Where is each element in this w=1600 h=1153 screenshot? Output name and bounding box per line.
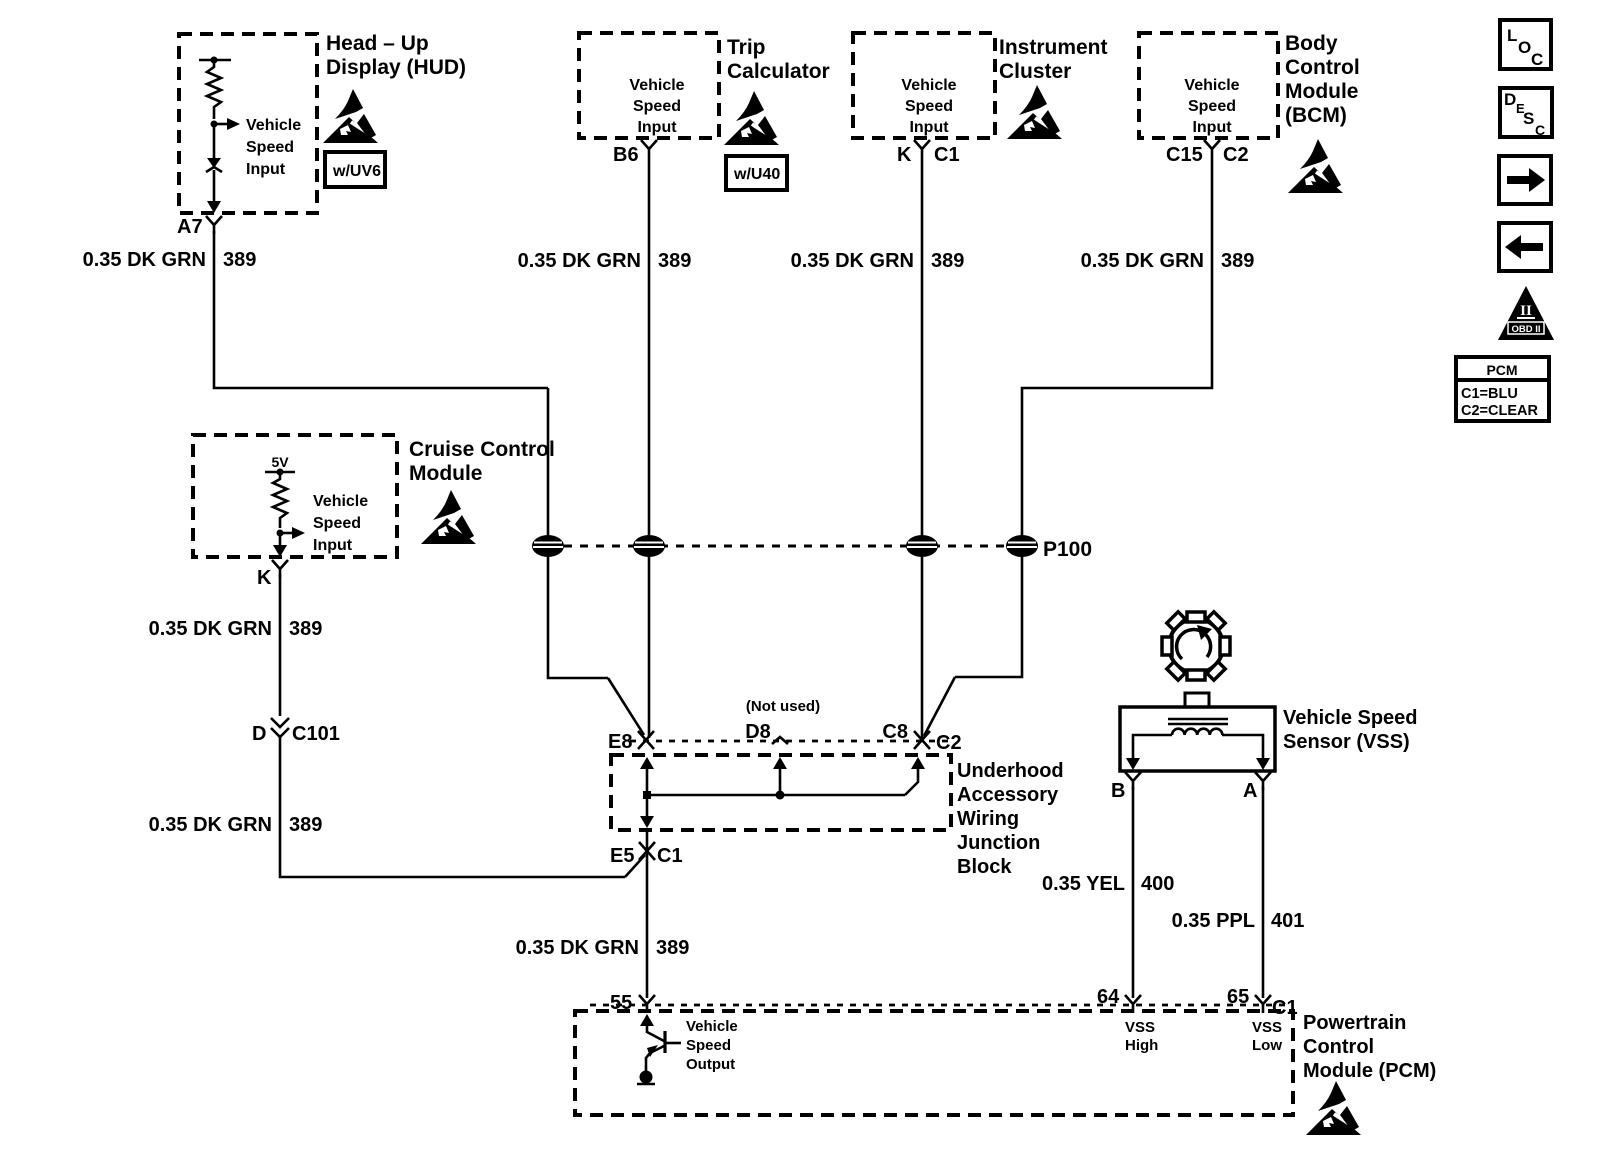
PCM connector edge line [590, 1004, 1290, 1007]
svg-text:C1: C1 [934, 144, 960, 166]
ESD icon for HUD [323, 89, 379, 143]
ESD icon for BCM [1288, 139, 1344, 193]
svg-text:C101: C101 [292, 723, 340, 745]
svg-text:Trip: Trip [727, 36, 766, 59]
svg-text:0.35 YEL: 0.35 YEL [1042, 873, 1125, 895]
svg-text:D: D [252, 723, 266, 745]
svg-text:Cluster: Cluster [999, 60, 1071, 83]
VSS pin A terminal [1256, 758, 1270, 770]
svg-text:C2: C2 [936, 732, 962, 754]
PCM connector legend box [1456, 357, 1549, 421]
svg-text:Block: Block [957, 856, 1012, 878]
Instrument Cluster pin K terminal [914, 140, 930, 158]
svg-text:Input: Input [313, 537, 353, 554]
svg-text:Head – Up: Head – Up [326, 32, 429, 55]
svg-text:65: 65 [1227, 986, 1249, 1008]
P100 dashed line [548, 545, 1040, 548]
VSS mounting tab [1185, 693, 1209, 707]
svg-text:0.35 DK GRN: 0.35 DK GRN [1081, 250, 1204, 272]
svg-text:OBD II: OBD II [1511, 324, 1540, 335]
internal bus: vertical with arrows at E8 column [640, 757, 654, 828]
resistor in Cruise Control [273, 472, 287, 528]
svg-text:S: S [1523, 109, 1534, 128]
svg-text:0.35 DK GRN: 0.35 DK GRN [518, 250, 641, 272]
wire diagonal into E8 [608, 678, 644, 735]
svg-text:Input: Input [909, 119, 949, 136]
svg-text:Wiring: Wiring [957, 808, 1019, 830]
PCM pin 65 terminal [1255, 995, 1271, 1013]
grommet on Instrument wire [906, 535, 938, 557]
Trip Calculator pin B6 terminal [641, 140, 657, 158]
terminal E5 (X connector) [639, 842, 655, 860]
svg-text:Vehicle: Vehicle [629, 77, 684, 94]
wire: Instrument Cluster K down to C8 [921, 158, 924, 738]
terminal E8 (X connector) [638, 731, 654, 749]
VSS pickup coil [1172, 729, 1222, 735]
wire: cruise K down to C101 [279, 575, 282, 716]
svg-text:C: C [1535, 122, 1545, 138]
Cruise pin K terminal [273, 545, 287, 557]
HUD signal tap arrow [211, 118, 241, 130]
wire: BCM C15 down, left, down to C2 [955, 158, 1212, 677]
svg-text:Speed: Speed [1188, 98, 1236, 115]
svg-text:0.35 DK GRN: 0.35 DK GRN [149, 618, 272, 640]
svg-text:64: 64 [1097, 986, 1120, 1008]
svg-text:Display (HUD): Display (HUD) [326, 56, 466, 79]
svg-text:Powertrain: Powertrain [1303, 1012, 1406, 1034]
svg-text:B6: B6 [613, 144, 639, 166]
svg-text:Vehicle: Vehicle [1184, 77, 1239, 94]
PCM pin 55 terminal [639, 995, 655, 1013]
svg-text:Speed: Speed [313, 515, 361, 532]
svg-text:400: 400 [1141, 873, 1174, 895]
svg-text:(BCM): (BCM) [1285, 104, 1347, 127]
svg-text:C1: C1 [1272, 997, 1298, 1019]
svg-text:Cruise Control: Cruise Control [409, 438, 555, 461]
svg-text:w/UV6: w/UV6 [332, 163, 381, 180]
svg-text:Speed: Speed [686, 1037, 731, 1054]
svg-text:Underhood: Underhood [957, 760, 1064, 782]
svg-text:55: 55 [610, 992, 632, 1014]
junction block connector edge line [630, 740, 948, 743]
BCM pin C15 terminal [1204, 140, 1220, 158]
svg-text:(Not used): (Not used) [746, 698, 820, 715]
svg-text:0.35 DK GRN: 0.35 DK GRN [791, 250, 914, 272]
svg-text:Vehicle Speed: Vehicle Speed [1283, 707, 1418, 729]
svg-text:389: 389 [289, 618, 322, 640]
svg-text:C1=BLU: C1=BLU [1461, 386, 1518, 402]
svg-text:Input: Input [1192, 119, 1232, 136]
svg-text:E5: E5 [610, 845, 634, 867]
forward arrow icon [1499, 156, 1551, 204]
svg-text:Body: Body [1285, 32, 1338, 55]
wire diagonal into E5 [625, 855, 645, 877]
Trip Calculator dashed box [579, 33, 719, 138]
wire: HUD A7 down and right to x=548 [214, 231, 548, 388]
svg-text:B: B [1111, 780, 1125, 802]
resistor in HUD [207, 60, 221, 119]
wire diagonal into C2 [924, 677, 955, 736]
svg-text:Input: Input [637, 119, 677, 136]
HUD dashed box [179, 34, 317, 213]
svg-text:Vehicle: Vehicle [246, 117, 301, 134]
grommet on HUD wire [532, 535, 564, 557]
svg-text:Control: Control [1285, 56, 1360, 79]
svg-text:Module: Module [1285, 80, 1359, 103]
svg-text:389: 389 [223, 249, 256, 271]
svg-text:Vehicle: Vehicle [313, 493, 368, 510]
svg-text:A7: A7 [177, 216, 203, 238]
wire to HUD pin A7 [213, 170, 216, 204]
wire: Trip Calculator B6 down to E8 [648, 158, 651, 738]
svg-text:389: 389 [931, 250, 964, 272]
svg-text:0.35 DK GRN: 0.35 DK GRN [83, 249, 206, 271]
branch to C8 [905, 757, 925, 795]
Cruise Control dashed box [193, 435, 397, 557]
svg-text:II: II [1520, 303, 1532, 319]
svg-text:0.35 PPL: 0.35 PPL [1172, 910, 1255, 932]
internal terminal symbol in HUD [206, 158, 222, 172]
svg-text:C2=CLEAR: C2=CLEAR [1461, 403, 1538, 419]
w/UV6 option tag [325, 152, 385, 187]
svg-text:Speed: Speed [905, 98, 953, 115]
svg-text:0.35 DK GRN: 0.35 DK GRN [149, 814, 272, 836]
svg-text:Vehicle: Vehicle [901, 77, 956, 94]
OBD II triangle icon [1498, 286, 1554, 340]
PCM dashed box [575, 1011, 1293, 1115]
svg-text:389: 389 [656, 937, 689, 959]
HUD internal pull-up bar [199, 57, 231, 64]
svg-text:C: C [1531, 50, 1543, 69]
wire: junction block down to PCM pin 55 [646, 832, 649, 998]
svg-text:Junction: Junction [957, 832, 1040, 854]
pin D8 stub (not used) [772, 737, 788, 744]
grommet on Trip wire [633, 535, 665, 557]
reluctor gear icon [1162, 612, 1230, 680]
ESD icon for Instrument Cluster [1007, 85, 1063, 139]
junction dot and branch to D8 [773, 757, 787, 800]
svg-text:Output: Output [686, 1056, 735, 1073]
svg-text:0.35 DK GRN: 0.35 DK GRN [516, 937, 639, 959]
LOC icon [1500, 20, 1551, 69]
svg-text:K: K [257, 567, 272, 589]
wire to cruise pin K [279, 533, 282, 548]
inline connector C101 [271, 718, 289, 737]
internal bus: horizontal line [647, 794, 905, 797]
5V supply bar [265, 469, 295, 476]
VSS pin B terminal [1126, 758, 1140, 770]
svg-text:K: K [897, 144, 912, 166]
PCM pin 64 terminal [1125, 995, 1141, 1013]
svg-text:Control: Control [1303, 1036, 1374, 1058]
svg-text:Module (PCM): Module (PCM) [1303, 1060, 1436, 1082]
svg-text:Accessory: Accessory [957, 784, 1059, 806]
svg-text:C2: C2 [1223, 144, 1249, 166]
VSS coil leads [1133, 735, 1172, 760]
DESC icon [1500, 88, 1552, 138]
svg-text:E8: E8 [608, 731, 632, 753]
HUD pin A7 terminal [207, 201, 221, 213]
transistor output stage in PCM [637, 1014, 681, 1084]
cruise signal tap arrow [277, 527, 306, 539]
svg-text:Low: Low [1252, 1037, 1282, 1054]
svg-text:D: D [1504, 90, 1516, 109]
svg-text:389: 389 [1221, 250, 1254, 272]
ESD icon for Trip Calculator [724, 91, 780, 145]
svg-text:Speed: Speed [633, 98, 681, 115]
wire: VSS B down to PCM 64 [1132, 787, 1135, 998]
svg-text:389: 389 [658, 250, 691, 272]
svg-text:VSS: VSS [1252, 1019, 1282, 1036]
wire: VSS A down to PCM 65 [1262, 787, 1265, 998]
wire: x=548 down to junction block E8 [548, 388, 608, 678]
svg-text:Instrument: Instrument [999, 36, 1108, 59]
svg-text:w/U40: w/U40 [733, 166, 780, 183]
svg-text:C8: C8 [882, 721, 908, 743]
svg-text:A: A [1243, 780, 1257, 802]
svg-text:L: L [1507, 26, 1517, 45]
back arrow icon [1499, 223, 1551, 271]
ESD icon for PCM [1306, 1081, 1362, 1135]
svg-text:High: High [1125, 1037, 1158, 1054]
svg-text:D8: D8 [745, 721, 771, 743]
VSS pickup coil core lines [1168, 718, 1228, 721]
svg-text:Input: Input [246, 161, 286, 178]
svg-text:VSS: VSS [1125, 1019, 1155, 1036]
svg-text:Vehicle: Vehicle [686, 1018, 738, 1035]
svg-text:P100: P100 [1043, 538, 1092, 561]
wire: C101 down then right to junction E5 [280, 735, 625, 877]
ESD icon for Cruise Control [421, 490, 477, 544]
svg-text:401: 401 [1271, 910, 1304, 932]
svg-text:C1: C1 [657, 845, 683, 867]
svg-text:O: O [1518, 38, 1531, 57]
svg-text:Calculator: Calculator [727, 60, 830, 83]
wire inside HUD [213, 124, 216, 158]
svg-text:Speed: Speed [246, 139, 294, 156]
svg-text:5V: 5V [271, 454, 289, 470]
Instrument Cluster dashed box [853, 33, 995, 138]
BCM dashed box [1139, 33, 1278, 138]
svg-text:389: 389 [289, 814, 322, 836]
svg-text:C15: C15 [1166, 144, 1203, 166]
grommet on BCM wire [1006, 535, 1038, 557]
junction block dashed box [611, 755, 951, 830]
w/U40 option tag [726, 156, 787, 190]
VSS solid box [1120, 707, 1275, 771]
svg-text:PCM: PCM [1486, 362, 1517, 378]
svg-text:Module: Module [409, 462, 483, 485]
terminal C8 (X connector) [914, 731, 930, 749]
svg-text:Sensor (VSS): Sensor (VSS) [1283, 731, 1410, 753]
